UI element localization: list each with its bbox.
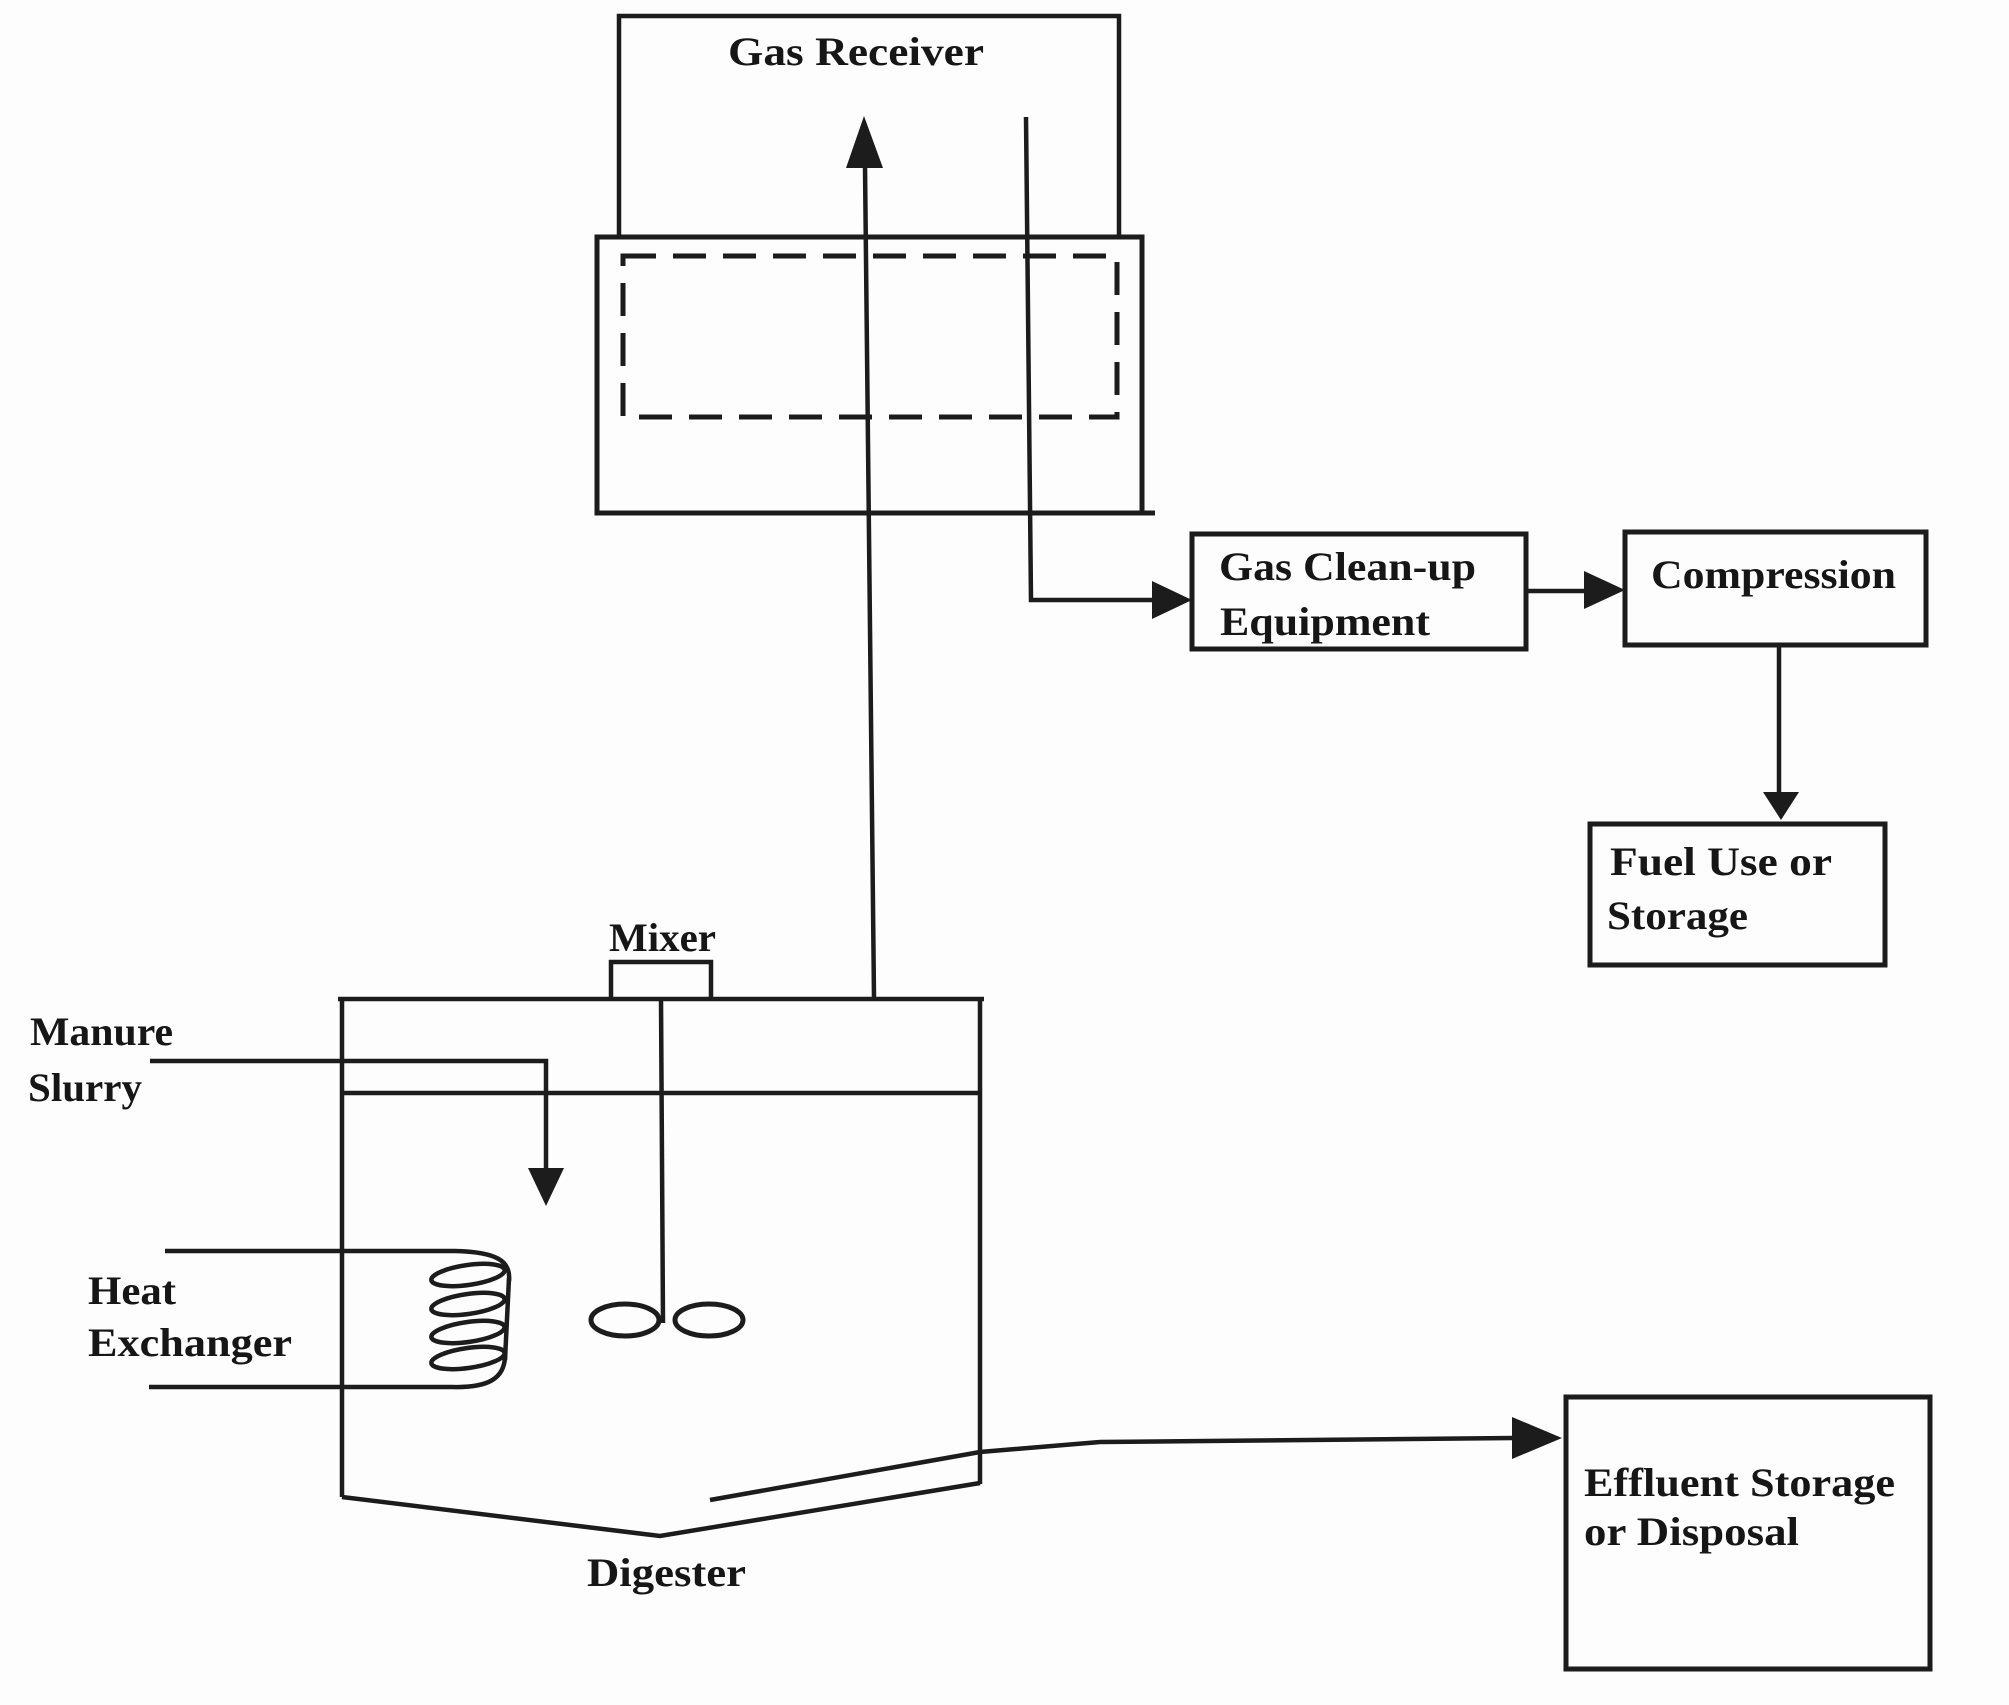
svg-text:Compression: Compression	[1651, 552, 1896, 597]
svg-text:Manure: Manure	[30, 1009, 173, 1054]
svg-text:Mixer: Mixer	[609, 915, 716, 960]
svg-text:Effluent Storage: Effluent Storage	[1584, 1460, 1895, 1505]
svg-text:Gas Clean-up: Gas Clean-up	[1219, 544, 1476, 589]
svg-text:Equipment: Equipment	[1220, 599, 1431, 644]
svg-text:or Disposal: or Disposal	[1584, 1509, 1799, 1554]
svg-text:Heat: Heat	[88, 1268, 177, 1313]
svg-text:Digester: Digester	[587, 1550, 746, 1595]
svg-text:Fuel Use or: Fuel Use or	[1610, 839, 1832, 884]
svg-text:Exchanger: Exchanger	[88, 1320, 292, 1365]
svg-text:Gas Receiver: Gas Receiver	[728, 29, 984, 74]
svg-text:Slurry: Slurry	[28, 1065, 142, 1110]
svg-text:Storage: Storage	[1607, 893, 1748, 938]
